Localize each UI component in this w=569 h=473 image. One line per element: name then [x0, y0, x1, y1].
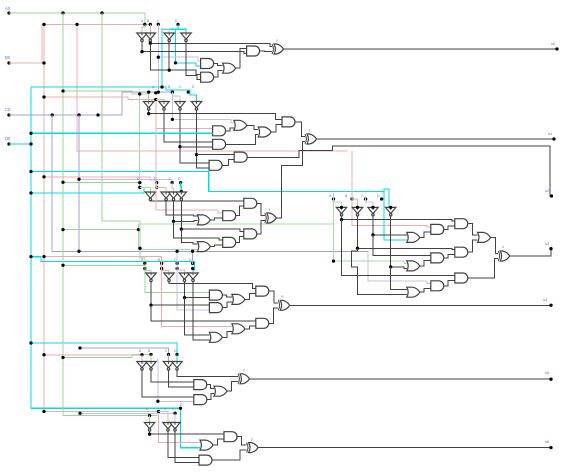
wire b4 inv1 out: [151, 281, 209, 305]
wire b3b ORm3 to ANDm2: [420, 260, 431, 266]
AND gate b6 AND2: [199, 455, 212, 465]
wire b2 C jog: [172, 92, 180, 101]
wire net B0 red main: [9, 24, 150, 63]
wire output s5: [250, 378, 552, 380]
wire b4 inv2 bus: [169, 281, 256, 288]
inverter U22: [146, 362, 156, 368]
node b3b inv2 d: [356, 247, 359, 250]
wire b3b cyan drop: [384, 192, 407, 240]
inverter U16: [386, 207, 396, 213]
inverter U17: [146, 273, 156, 279]
node b4 t2B: [160, 267, 163, 270]
wire b3b inv4 out: [391, 216, 407, 269]
wire b5 inv1 out: [142, 370, 194, 397]
wire b1 inv4 out: [186, 41, 201, 79]
inverter U25: [144, 423, 154, 429]
wire b2 cyan to A1: [31, 132, 213, 134]
AND gate b2 A3: [282, 117, 295, 127]
node output s0: [555, 47, 558, 50]
OR gate b3a OR3: [197, 215, 210, 225]
svg-text:s: s: [269, 208, 271, 212]
node b4 t2C: [175, 267, 178, 270]
node C0 c: [96, 113, 99, 116]
node b3b inD: [389, 206, 392, 209]
wire b5 D stub: [176, 355, 178, 362]
inverter U27: [170, 423, 180, 429]
AND gate b3b AND_b2: [431, 224, 444, 234]
wire b4 C stub: [177, 270, 184, 273]
OR gate b1 OR_b: [223, 63, 236, 73]
node red b2t: [154, 98, 157, 101]
OR gate b4 OR_f: [232, 324, 245, 334]
OR gate b3a OR6: [197, 242, 210, 252]
wire b3b ANDm1 to ORmid: [468, 240, 478, 252]
wire b3a inv1 bus: [150, 199, 243, 202]
node lav57: [157, 56, 160, 59]
XOR gate b2 XOR out: [307, 134, 317, 144]
wire b3b red feed: [352, 151, 431, 227]
wire b3a red to AND2: [156, 128, 223, 213]
node red b2: [42, 95, 45, 98]
node lav413: [78, 412, 81, 415]
node b3a cyan main: [180, 190, 183, 193]
node b4 tC: [175, 262, 178, 265]
node b1 tC: [157, 23, 160, 26]
node b3b tB: [350, 197, 353, 200]
inverter U7: [175, 102, 185, 108]
node indigo348: [78, 346, 81, 349]
node green94: [138, 92, 141, 95]
node b2 inv4 d: [195, 153, 198, 156]
wire green vertical x102: [102, 13, 145, 263]
node b4 tB: [160, 262, 163, 265]
wire b2 O2 to A3: [271, 124, 282, 132]
node b1 inv3 j: [168, 69, 171, 72]
node output s2: [550, 194, 553, 197]
AND gate b3a AND5: [223, 237, 236, 247]
wire b3a C stub: [172, 183, 173, 192]
svg-text:D: D: [180, 403, 183, 407]
node b1 tA: [143, 23, 146, 26]
node output s3: [549, 247, 552, 250]
node A0 v1: [61, 11, 64, 14]
node green357: [61, 356, 64, 359]
inverter U18: [164, 273, 174, 279]
wire b3b inv2 drop: [351, 248, 407, 294]
wire lavender b1 drop: [158, 29, 200, 61]
inverter U9: [145, 192, 155, 198]
svg-text:D: D: [377, 194, 380, 198]
wire cyan branch y171 block3: [31, 172, 384, 192]
AND gate b4 AND_a: [209, 290, 222, 300]
svg-text:A: A: [141, 19, 144, 23]
svg-text:y: y: [251, 437, 253, 441]
AND gate b3b AND_t2: [431, 281, 444, 291]
wire b1 ANDd to ORb: [214, 71, 223, 78]
node cyan133: [29, 132, 32, 135]
node b5 tA: [140, 353, 143, 356]
svg-text:x: x: [243, 368, 245, 372]
node C0 a: [51, 113, 54, 116]
wire b4 D feed: [192, 251, 194, 264]
wire cyan block1 drop: [176, 29, 201, 66]
node b4 tA: [143, 262, 146, 265]
wire b6 inv2 out: [168, 431, 199, 458]
wire b3a inv4 out: [181, 200, 244, 231]
inverter U13: [336, 207, 346, 213]
wire b4 ORc to ANDd: [245, 294, 256, 300]
node b3b inC: [371, 206, 374, 209]
wire b1 inv3 out: [168, 41, 170, 70]
OR gate b2 O1: [234, 120, 247, 130]
wire b6 inv3 out: [175, 431, 199, 463]
AND gate b6 AND1: [224, 432, 237, 442]
node b6 tD: [179, 407, 182, 410]
wire b3a A stub: [140, 187, 151, 192]
svg-text:A: A: [139, 349, 142, 353]
node cyan b1: [174, 61, 177, 64]
wire b3a green feed: [63, 181, 140, 183]
wire output s3: [510, 249, 551, 256]
node cyan171: [29, 170, 32, 173]
node b3a red: [42, 175, 45, 178]
svg-text:v: v: [276, 39, 278, 43]
svg-text:B: B: [164, 407, 167, 411]
node b3a tA: [138, 181, 141, 184]
node b3b tA: [332, 197, 335, 200]
wire red branch x77: [77, 24, 348, 151]
inverter U20: [188, 273, 198, 279]
wire b2 inv3 out: [180, 110, 209, 163]
svg-text:D0: D0: [5, 136, 11, 141]
wire b2 A5 to A4: [222, 160, 234, 166]
wire red branch block6: [44, 412, 200, 443]
inverter U2: [145, 33, 155, 39]
XOR gate b6 XOR out: [249, 443, 259, 453]
wire b3b B stub: [352, 199, 358, 207]
wire green vertical x139: [139, 94, 141, 187]
AND gate b3a AND1: [244, 198, 257, 208]
wire b1 ANDc to ORb: [214, 64, 223, 66]
svg-text:t: t: [309, 129, 310, 133]
AND gate b4 AND_d: [256, 286, 269, 296]
inverter U1: [137, 33, 147, 39]
wire b4 ANDa to ORc: [222, 295, 232, 297]
wire b1 bus B: [142, 41, 247, 53]
green deco L: [282, 223, 334, 225]
inverter U6: [159, 102, 169, 108]
wire b3b ORt3 to ANDt2: [420, 288, 431, 292]
wire b3a inv3 out: [174, 200, 198, 221]
wire b3a OR6 to AND5: [210, 245, 222, 247]
node b1 tB: [149, 23, 152, 26]
node output s4: [549, 304, 552, 307]
AND gate b2 A5: [209, 160, 222, 170]
wire lavender b1 vertical: [157, 24, 159, 92]
node b3a lav: [77, 178, 80, 181]
wire b3b inv2 out: [358, 216, 455, 250]
svg-text:w: w: [281, 295, 284, 299]
wire b3b ANDb2 to ANDb1: [444, 226, 455, 229]
inverter U11: [168, 192, 178, 198]
node b5 lav: [156, 400, 159, 403]
wire b6 AND2 to XOR: [212, 450, 247, 460]
wire b4 ANDb to ORc: [222, 302, 232, 308]
inverter U26: [163, 423, 173, 429]
node red77: [75, 23, 78, 26]
wire b2 inv4 branch: [197, 154, 235, 156]
node green229: [61, 228, 64, 231]
node b6 tA: [148, 414, 151, 417]
wire b2 lavender drop: [172, 96, 233, 123]
wire b1 C jog: [158, 24, 169, 33]
inverter U14: [352, 207, 362, 213]
wire b1 ANDa to XOR: [260, 50, 272, 53]
OR gate b5 OR3: [214, 386, 227, 396]
wire b5 inv2 out: [151, 370, 194, 382]
wire green branch block2: [63, 91, 149, 102]
wire cyan branch y193: [31, 187, 144, 193]
AND gate b4 AND_e: [256, 318, 269, 328]
wire b2 red T2 jog: [156, 100, 164, 102]
AND gate b1 AND_a: [247, 46, 260, 56]
wire b4 ANDd to XOR: [269, 291, 278, 303]
wire b6 red T2 jog: [159, 412, 168, 423]
wire b3a AND1 to XOR: [257, 203, 265, 215]
wire green branch block4: [63, 265, 209, 292]
node b3b inv3 d: [371, 233, 374, 236]
wire cyan branch block6: [31, 408, 200, 447]
wire b6 OR3 to AND1: [213, 439, 224, 445]
node b3a t2A: [138, 186, 141, 189]
inverter U24: [172, 362, 182, 368]
node b3a t2B: [155, 186, 158, 189]
wire b3b lavender feed: [368, 251, 431, 283]
inverter U3: [164, 33, 174, 39]
wire b3a B stub: [157, 183, 166, 192]
node green265: [61, 264, 64, 267]
wire b5 inv3 out: [169, 370, 194, 387]
wire cyan branch block5: [31, 343, 177, 355]
wire b4 B stub: [162, 257, 169, 273]
AND gate b3a AND2: [223, 211, 236, 221]
svg-text:D: D: [192, 85, 195, 89]
wire b2 bus inv1: [149, 110, 282, 120]
wire b2 A2 to O2: [226, 135, 259, 145]
node B0 a: [42, 23, 45, 26]
node b4 t2A: [143, 267, 146, 270]
node cyan256: [29, 255, 32, 258]
svg-text:B: B: [148, 349, 151, 353]
wire red branch block4: [44, 257, 232, 327]
wire b3b green drop: [334, 193, 407, 263]
wire b4 ORf to ANDe: [245, 326, 256, 329]
node b4 tD: [191, 262, 194, 265]
wire b4 lavender drop: [177, 251, 209, 310]
wire b1 B jog: [149, 24, 151, 33]
svg-text:s5: s5: [545, 370, 550, 375]
svg-text:B0: B0: [5, 55, 11, 60]
svg-text:C: C: [361, 194, 364, 198]
wire b3a D stub: [180, 183, 183, 192]
wire b3a AND4 to XOR: [257, 221, 265, 234]
node b1 busA: [149, 42, 152, 45]
node b5 tB: [149, 353, 152, 356]
svg-text:s6: s6: [545, 439, 550, 444]
node red b6: [157, 410, 160, 413]
node b3b inB: [356, 206, 359, 209]
wire b6 C stub: [174, 413, 176, 422]
inverter U8: [191, 102, 201, 108]
OR gate b3b OR_mid: [478, 232, 491, 242]
OR gate b4 OR_g: [209, 332, 222, 342]
svg-text:A: A: [146, 407, 149, 411]
wire output s1: [317, 138, 555, 140]
node b4 lav251: [175, 250, 178, 253]
node b4 ind: [191, 250, 194, 253]
wire indigo vertical x79: [78, 115, 80, 251]
wire b2 O1 to O2: [247, 125, 258, 129]
wire green branch block3: [63, 229, 138, 231]
wire b3b A stub: [334, 202, 342, 207]
wire b3b inv3 out: [373, 216, 407, 235]
svg-text:s3: s3: [545, 241, 550, 246]
wire b5 AND1 to OR3: [207, 385, 214, 389]
node b2 tB: [154, 91, 157, 94]
wire red branch block5: [44, 354, 142, 356]
wire green vertical block3: [138, 224, 197, 249]
wire b3b C stub: [366, 196, 373, 207]
wire b3a lavender feed: [79, 179, 172, 182]
wire b3a xor to XOR2: [276, 142, 305, 219]
AND gate b3b AND_m2: [431, 253, 444, 263]
svg-text:C: C: [165, 349, 168, 353]
wire b3b ANDt1 to XOR: [468, 259, 498, 279]
node b3a tB: [155, 181, 158, 184]
wire output s0: [284, 48, 558, 50]
svg-text:C: C: [172, 407, 175, 411]
wire cyan branch block4: [31, 257, 194, 273]
svg-text:A: A: [329, 194, 332, 198]
wire b5 C stub: [168, 355, 170, 362]
wire green branch block5: [63, 355, 151, 358]
wire b5 A stub: [141, 355, 143, 362]
wire b2 A4 to s2: [247, 146, 551, 196]
node A0 v2: [100, 11, 103, 14]
wire b4 ORg to ORf: [222, 331, 232, 337]
svg-text:A0: A0: [5, 6, 11, 11]
wire indigo vertical x52: [52, 115, 368, 251]
svg-text:B: B: [168, 85, 171, 89]
wire green vertical x63: [62, 13, 64, 416]
wire b3a inv4 drop: [181, 229, 197, 244]
wire cyan branch block1: [31, 29, 186, 87]
wire b4 inv3 out: [185, 281, 210, 297]
svg-text:u: u: [502, 245, 504, 249]
wire b6 AND1 to XOR: [237, 437, 247, 445]
node green249: [137, 228, 140, 231]
node b2 busA: [147, 112, 150, 115]
node B0 b: [42, 61, 45, 64]
wire net B0 red vertical: [43, 24, 45, 411]
wire b3b ANDm2 to ANDm1: [444, 255, 455, 258]
wire indigo branch block5: [80, 348, 169, 355]
wire b3a AND5 to AND4: [236, 236, 244, 242]
inverter U12: [176, 192, 186, 198]
node cyan193: [29, 191, 32, 194]
node red411: [42, 410, 45, 413]
svg-text:s0: s0: [551, 41, 556, 46]
inverter U5: [144, 102, 154, 108]
AND gate b5 AND1: [194, 380, 207, 390]
node b2 tD: [187, 90, 190, 93]
wire b5 inv4 bus: [177, 370, 238, 377]
node b3b green d: [332, 259, 335, 262]
OR gate b3b OR_m3: [407, 261, 420, 271]
wire b3b ANDb1 to ORmid: [468, 224, 478, 235]
OR gate b4 OR_c: [232, 294, 245, 304]
wire b2 A3 to XOR: [295, 122, 305, 137]
wire b4 inv3 drop: [185, 298, 210, 335]
wire b1 D jog: [177, 24, 179, 29]
node red355: [42, 353, 45, 356]
node lav119: [171, 118, 174, 121]
XOR gate b3b XOR out: [500, 251, 510, 261]
wire net D0 cyan: [9, 143, 31, 145]
wire b4 inv1 drop: [151, 305, 256, 321]
node b4 t2D: [191, 267, 194, 270]
node red256: [42, 255, 45, 258]
node b3b inv4 d: [389, 265, 392, 268]
node output s1: [552, 137, 555, 140]
svg-text:s1: s1: [548, 131, 553, 136]
node D0 in: [29, 142, 32, 145]
node b4 inv3 d: [183, 296, 186, 299]
wire b3b ANDt2 to ANDt1: [444, 281, 455, 286]
svg-text:s2: s2: [545, 188, 550, 193]
node b5 tD: [175, 353, 178, 356]
node indigo join: [77, 250, 80, 253]
node b1 tD: [176, 23, 179, 26]
svg-text:s4: s4: [543, 297, 548, 302]
node green248: [138, 247, 141, 250]
wire b3a inv2 out: [166, 200, 197, 216]
svg-text:D: D: [178, 177, 181, 181]
wire b6 A stub: [149, 416, 151, 423]
node cyan87: [160, 85, 163, 88]
node b6 inv1 d: [148, 433, 151, 436]
wire b2 inv4 out: [197, 110, 210, 168]
OR gate b3b OR_b3: [407, 232, 420, 242]
AND gate b2 A2: [213, 139, 226, 149]
AND gate b2 A4: [234, 152, 247, 162]
wire b2 inv3 branch: [180, 146, 213, 148]
AND gate b1 AND_d: [201, 72, 214, 82]
AND gate b3b AND_t1: [455, 273, 468, 283]
node b3a tC: [170, 181, 173, 184]
node b1 busB: [140, 50, 143, 53]
node b6 tC: [173, 412, 176, 415]
wire net C0 indigo: [9, 92, 172, 115]
wire b2 red feed: [44, 97, 213, 128]
inverter U21: [137, 362, 147, 368]
wire net A0 green: [9, 13, 145, 24]
wire b3b ORmid to XOR: [491, 237, 499, 253]
AND gate b1 AND_c: [201, 59, 214, 69]
wire b5 OR3 to XOR: [227, 381, 238, 391]
wire lavender branch block6: [80, 412, 175, 414]
node output s6: [549, 446, 552, 449]
